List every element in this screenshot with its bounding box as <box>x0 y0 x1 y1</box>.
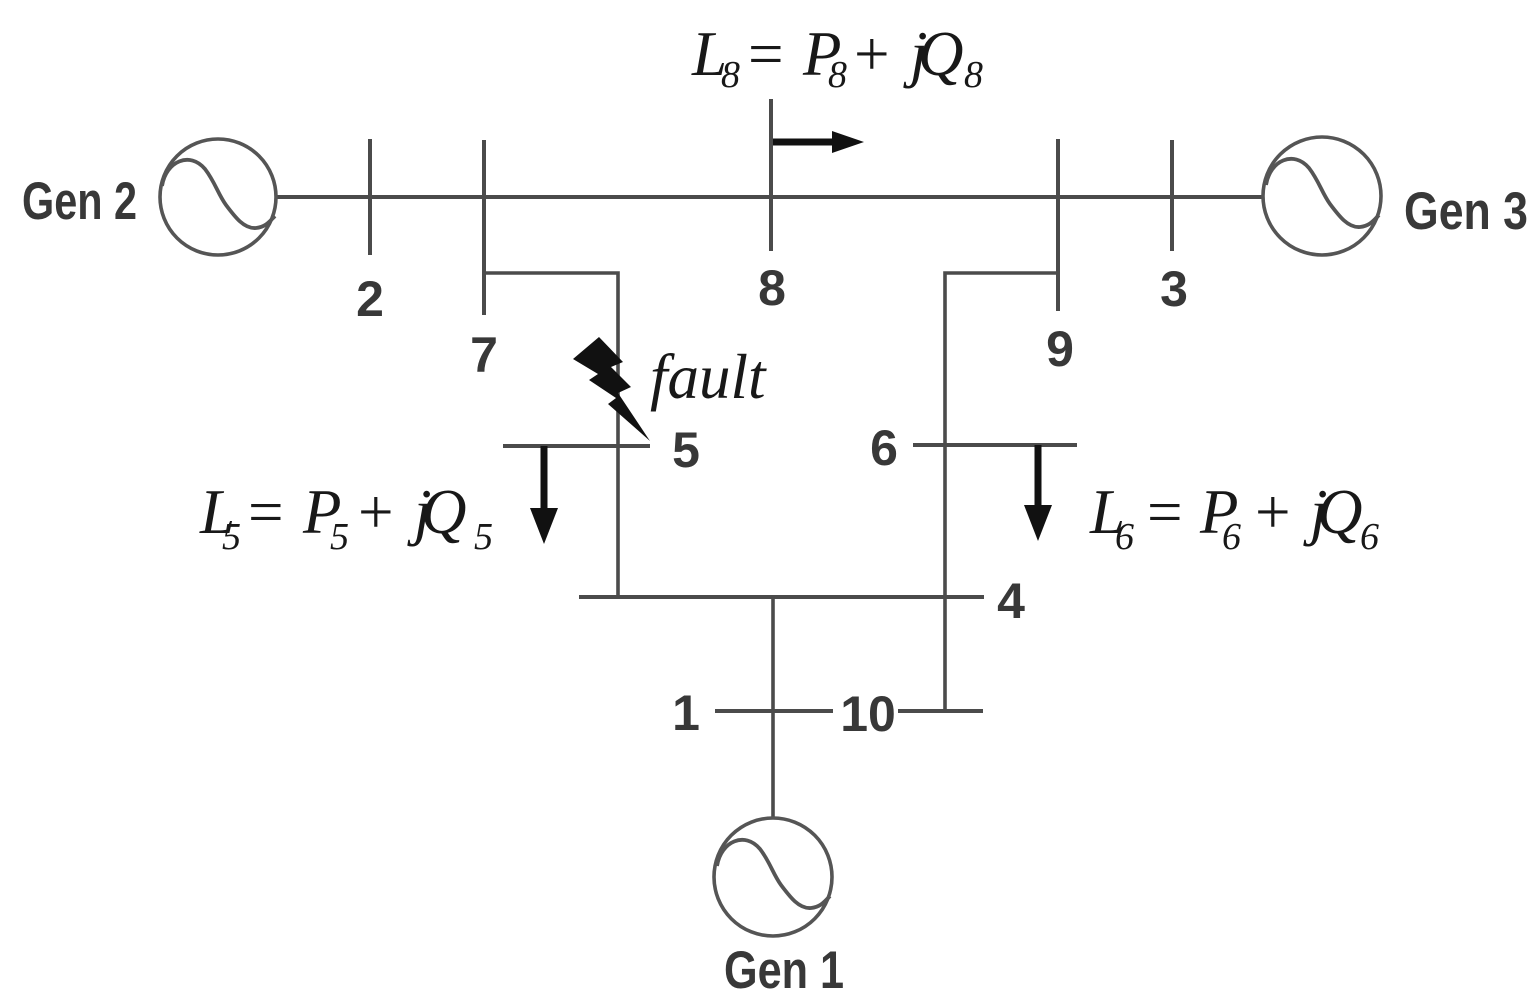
svg-text:10: 10 <box>840 686 896 742</box>
svg-text:1: 1 <box>672 685 700 741</box>
svg-text:L6=P6+jQ6: L6=P6+jQ6 <box>1089 477 1379 558</box>
svg-text:2: 2 <box>356 271 384 327</box>
svg-text:L8=P8+jQ8: L8=P8+jQ8 <box>691 19 983 96</box>
svg-text:8: 8 <box>758 260 786 316</box>
svg-text:fault: fault <box>650 342 767 412</box>
svg-text:Gen 1: Gen 1 <box>724 941 844 1000</box>
svg-text:4: 4 <box>997 573 1025 629</box>
svg-text:3: 3 <box>1160 261 1188 317</box>
svg-text:Gen 3: Gen 3 <box>1404 182 1528 241</box>
svg-text:7: 7 <box>470 327 498 383</box>
svg-text:5: 5 <box>672 422 700 478</box>
svg-text:9: 9 <box>1046 321 1074 377</box>
svg-text:Gen 2: Gen 2 <box>22 172 137 231</box>
svg-text:L5=P5+jQ5: L5=P5+jQ5 <box>199 477 493 558</box>
svg-text:6: 6 <box>870 420 898 476</box>
